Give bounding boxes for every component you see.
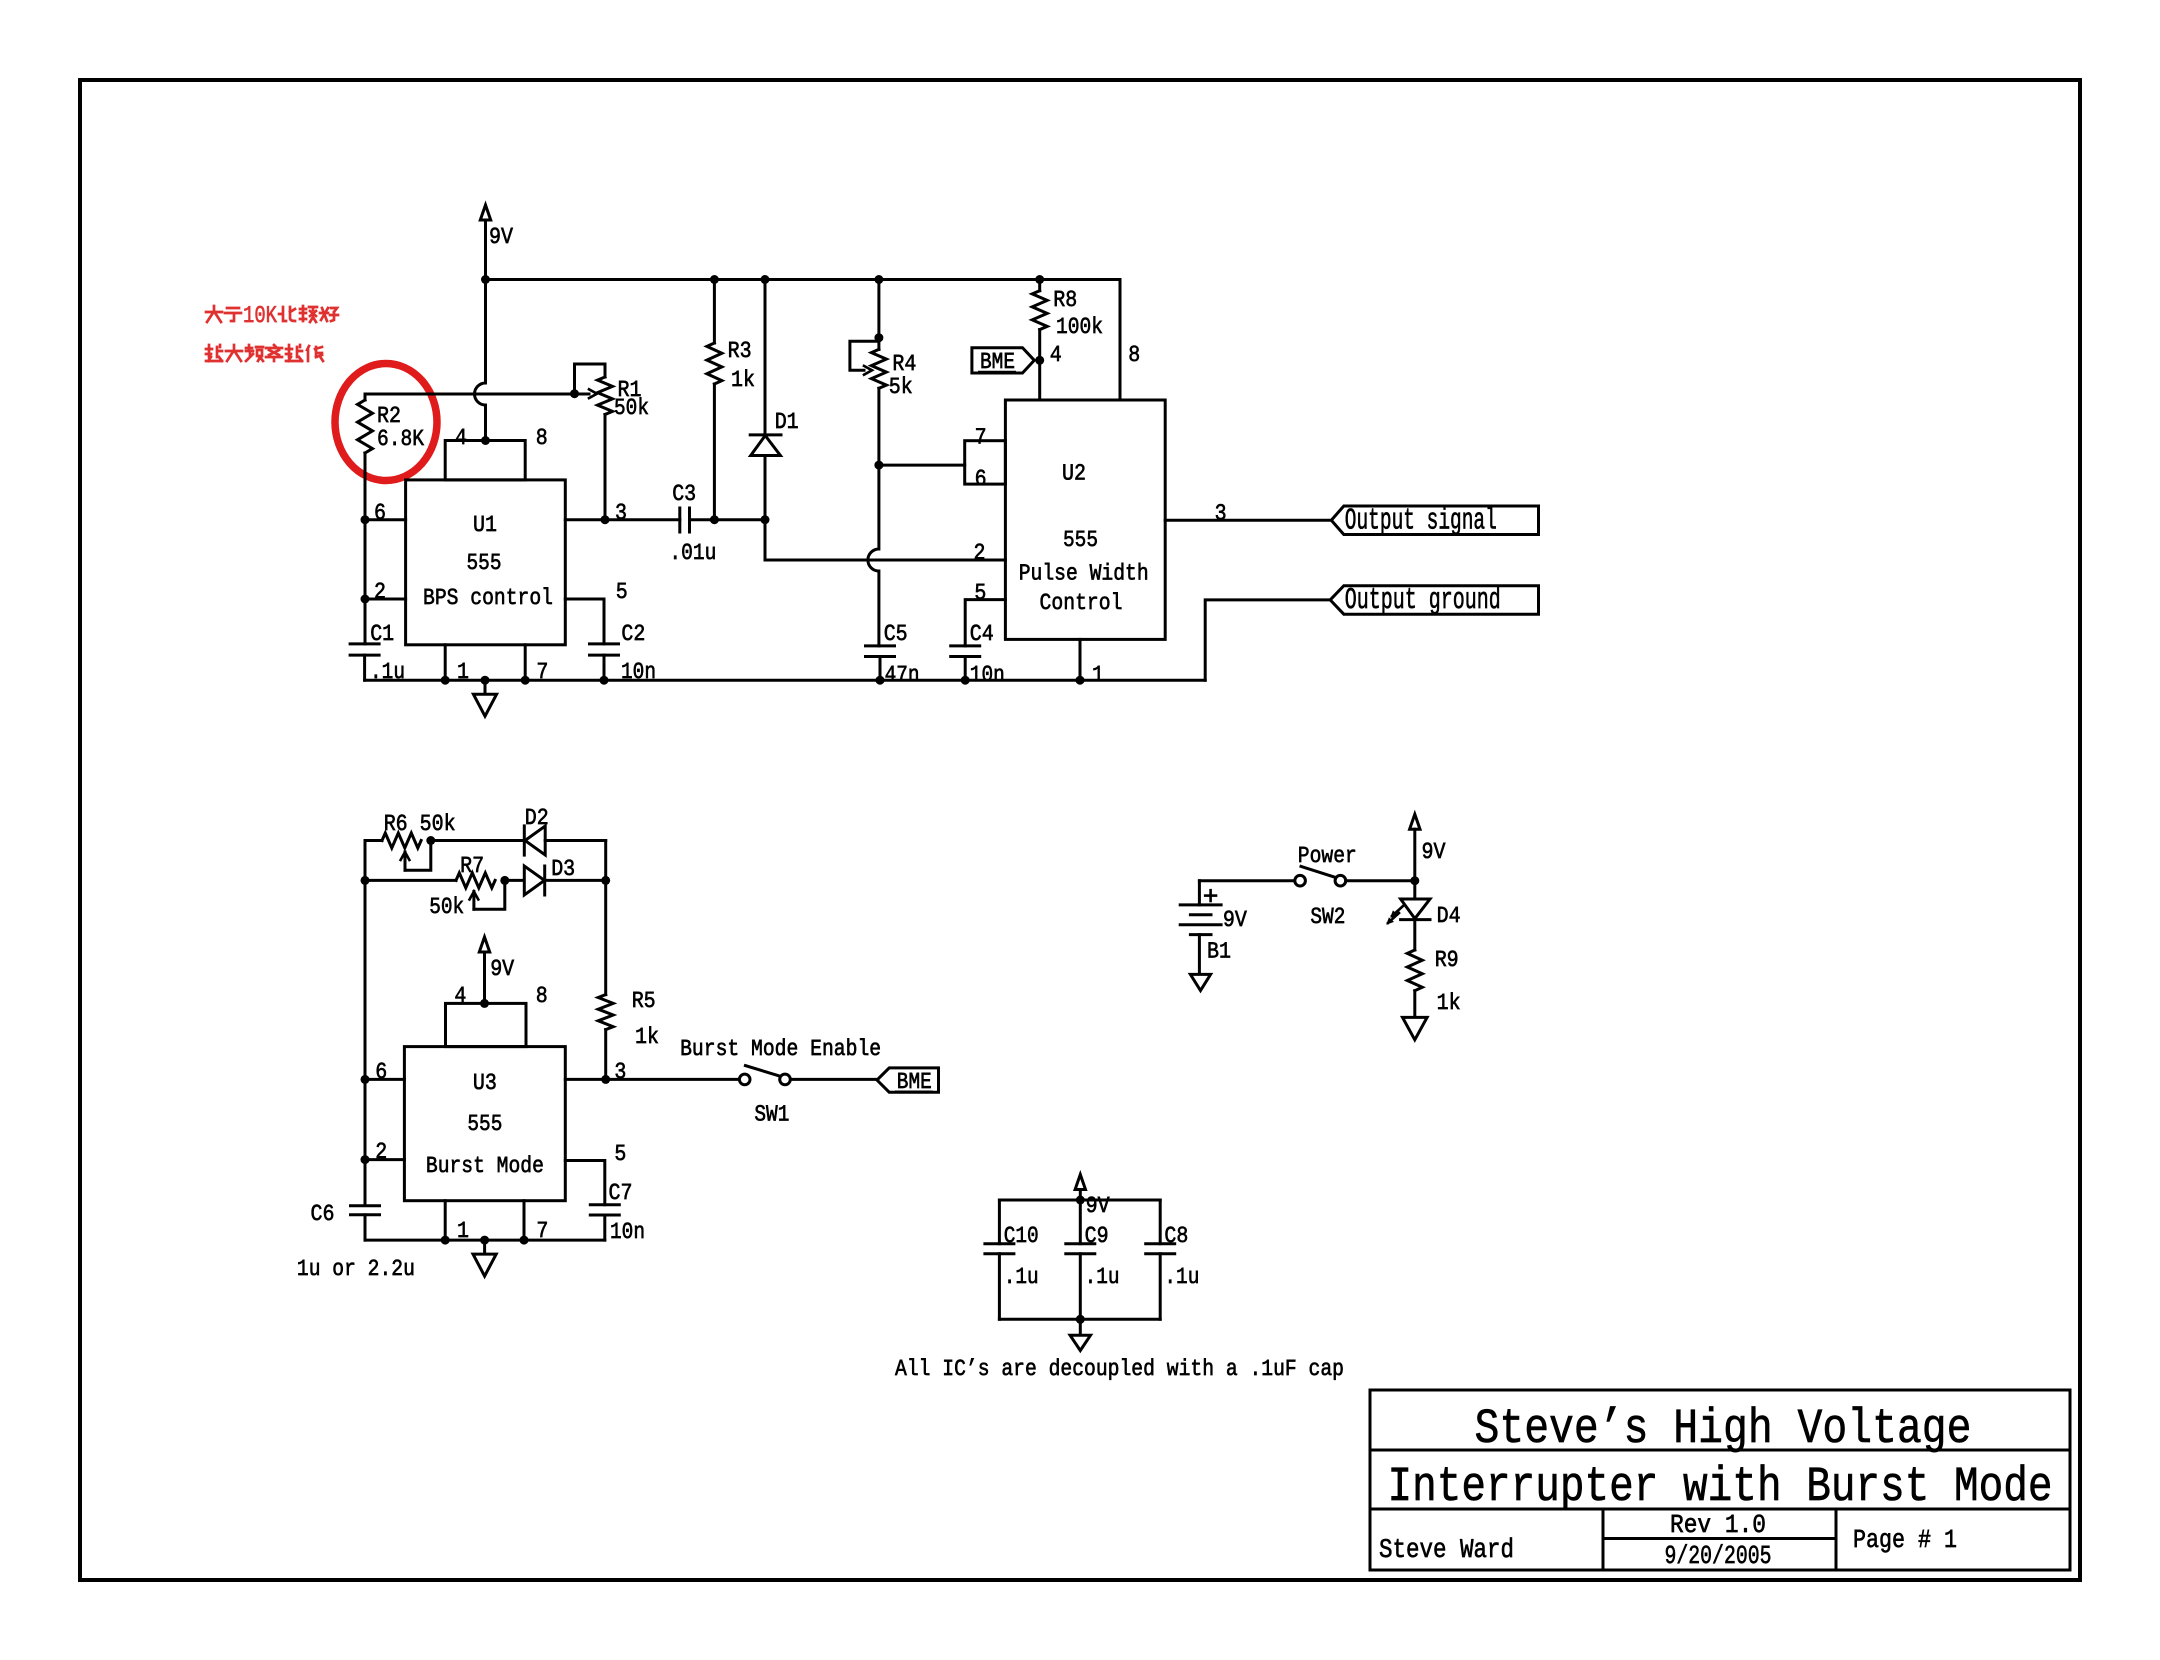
resistor R3 1k bbox=[707, 280, 722, 520]
svg-text:9/20/2005: 9/20/2005 bbox=[1665, 1541, 1772, 1571]
capacitor C6 1u bbox=[351, 1206, 380, 1240]
junction dot R6 right/wiper bbox=[426, 836, 435, 845]
potentiometer R7 50k bbox=[456, 873, 505, 909]
potentiometer R6 50k bbox=[382, 833, 431, 870]
U3 555 Burst Mode IC box bbox=[404, 1003, 565, 1200]
potentiometer R4 5k bbox=[850, 280, 887, 389]
junction dot rail/R8 bbox=[1035, 275, 1044, 284]
svg-text:Output ground: Output ground bbox=[1345, 584, 1501, 618]
ground symbol (U3) bbox=[473, 1240, 496, 1276]
diode D1 bbox=[750, 280, 781, 520]
svg-text:1k: 1k bbox=[635, 1024, 659, 1050]
junction dot at U3 4/8 notch bbox=[480, 999, 489, 1008]
junction dot R8/BME (U2 pin 4) bbox=[1035, 356, 1044, 365]
junction dot U3 pin 6 bbox=[361, 1075, 370, 1084]
svg-text:Steve Ward: Steve Ward bbox=[1379, 1536, 1514, 1566]
power arrow 9V (battery circuit) bbox=[1410, 814, 1420, 881]
svg-text:Power: Power bbox=[1298, 843, 1357, 869]
svg-text:Page # 1: Page # 1 bbox=[1853, 1525, 1957, 1555]
ground symbol (battery) bbox=[1190, 974, 1210, 990]
junction dots on upper ground rail bbox=[441, 676, 450, 685]
wire: R6/D2 top loop bbox=[365, 839, 382, 842]
LED D4 emission arrows bbox=[1386, 906, 1403, 925]
svg-text:3: 3 bbox=[615, 500, 627, 526]
svg-text:.1u: .1u bbox=[1004, 1264, 1039, 1290]
svg-text:C4: C4 bbox=[970, 621, 994, 647]
diode D2 bbox=[524, 826, 605, 855]
wire: U3 pin 1 bbox=[444, 1201, 447, 1240]
svg-text:C7: C7 bbox=[609, 1180, 633, 1206]
svg-text:C6: C6 bbox=[311, 1201, 335, 1227]
red annotation text line 2: 越大频率越低 bbox=[206, 345, 323, 361]
svg-text:SW1: SW1 bbox=[754, 1102, 789, 1128]
svg-text:Rev 1.0: Rev 1.0 bbox=[1670, 1510, 1766, 1540]
svg-text:BPS control: BPS control bbox=[423, 585, 553, 611]
net flag Output signal bbox=[1331, 506, 1538, 535]
svg-text:9V: 9V bbox=[1223, 907, 1247, 933]
capacitor C9 .1u bbox=[1066, 1200, 1095, 1319]
wire: U3 pin 7 bbox=[523, 1201, 526, 1240]
svg-text:R8: R8 bbox=[1053, 287, 1077, 313]
wire: U1 pin 6 bbox=[365, 518, 406, 521]
junction dot pin 6 bbox=[361, 515, 370, 524]
svg-text:C5: C5 bbox=[884, 621, 908, 647]
svg-text:2: 2 bbox=[374, 579, 386, 605]
junction dot at U1 4/8 notch bbox=[481, 436, 490, 445]
wire: decoupling top bus bbox=[999, 1199, 1160, 1202]
svg-text:Burst Mode: Burst Mode bbox=[426, 1153, 544, 1179]
svg-text:9V: 9V bbox=[1422, 839, 1446, 865]
power arrow 9V (top, feeds U1 rail) bbox=[480, 205, 490, 280]
svg-text:9V: 9V bbox=[1086, 1193, 1110, 1219]
wire: D2 to right vertical corner bbox=[604, 841, 607, 881]
wire: left vertical of burst oscillator bbox=[364, 841, 367, 1205]
svg-text:5: 5 bbox=[614, 1141, 626, 1167]
title block bbox=[1370, 1390, 2070, 1570]
net flag Output ground bbox=[1330, 586, 1538, 615]
junction dot R4 top/wiper bbox=[874, 333, 883, 342]
svg-text:U3: U3 bbox=[473, 1070, 497, 1096]
svg-text:Interrupter with Burst Mode: Interrupter with Burst Mode bbox=[1388, 1459, 2053, 1515]
junction dot R7 right/wiper bbox=[500, 876, 509, 885]
wire: U1 pin 7 bbox=[524, 645, 527, 680]
ground symbol (R9) bbox=[1403, 1017, 1428, 1039]
svg-text:555: 555 bbox=[1063, 527, 1098, 553]
wire: D1 node down and right to U2 pin 2 bbox=[765, 520, 1005, 560]
svg-text:C9: C9 bbox=[1085, 1223, 1109, 1249]
svg-text:B1: B1 bbox=[1207, 939, 1231, 965]
wire: upper ground rail bbox=[365, 679, 1206, 682]
wire: U3 pin 5 to C7 bbox=[565, 1161, 605, 1205]
svg-text:1k: 1k bbox=[731, 367, 755, 393]
svg-text:6: 6 bbox=[975, 466, 987, 492]
red circle highlighting R2 bbox=[335, 364, 437, 481]
svg-text:C2: C2 bbox=[621, 621, 645, 647]
svg-text:R7: R7 bbox=[460, 853, 484, 879]
wire: R6 to D2 bbox=[431, 839, 525, 842]
svg-text:Steve’s High Voltage: Steve’s High Voltage bbox=[1475, 1401, 1972, 1457]
svg-text:4: 4 bbox=[454, 983, 466, 1009]
svg-text:R9: R9 bbox=[1435, 947, 1459, 973]
svg-text:2: 2 bbox=[974, 540, 986, 566]
svg-text:1: 1 bbox=[1092, 662, 1104, 688]
resistor R5 1k bbox=[598, 880, 613, 1079]
junction dot rail/D1 bbox=[761, 275, 770, 284]
svg-text:R5: R5 bbox=[632, 988, 656, 1014]
battery B1 9V bbox=[1180, 881, 1221, 975]
svg-text:5: 5 bbox=[974, 580, 986, 606]
svg-text:D3: D3 bbox=[551, 856, 575, 882]
wire: R4 bottom through hop down to C5 bbox=[868, 388, 879, 646]
svg-text:Burst Mode Enable: Burst Mode Enable bbox=[680, 1036, 881, 1062]
svg-text:D2: D2 bbox=[525, 805, 549, 831]
wire: U3 pin 2 bbox=[365, 1158, 404, 1161]
potentiometer R1 50k bbox=[575, 364, 613, 520]
junction dot left vertical/R7 bbox=[361, 876, 370, 885]
junction dot R1/pin3 bbox=[601, 515, 610, 524]
capacitor C2 10n bbox=[565, 599, 618, 680]
svg-text:6: 6 bbox=[375, 1059, 387, 1085]
resistor R9 1k bbox=[1407, 950, 1422, 1017]
wire: U2 pin 5 to C4 bbox=[965, 600, 1005, 646]
svg-text:3: 3 bbox=[614, 1059, 626, 1085]
svg-text:C1: C1 bbox=[370, 621, 394, 647]
wire: R7 row from left vertical bbox=[365, 879, 456, 882]
net flag BME (right) bbox=[877, 1068, 939, 1092]
wire: rail corner down to U2 pin 8 bbox=[1119, 280, 1122, 401]
svg-text:U2: U2 bbox=[1062, 461, 1086, 487]
wire: U3 pin 6 bbox=[365, 1078, 404, 1081]
svg-text:5k: 5k bbox=[889, 374, 913, 400]
junction dot pin 2 bbox=[361, 595, 370, 604]
wire: decoupling bottom bus bbox=[999, 1318, 1160, 1321]
svg-text:C3: C3 bbox=[672, 481, 696, 507]
wire: lower ground rail bbox=[365, 1239, 605, 1242]
wire: U2 pin 1 bbox=[1079, 639, 1082, 680]
svg-text:3: 3 bbox=[1215, 501, 1227, 527]
svg-text:1k: 1k bbox=[1437, 990, 1461, 1016]
U2 555 Pulse Width Control IC box bbox=[1005, 400, 1165, 639]
svg-text:1u or 2.2u: 1u or 2.2u bbox=[297, 1256, 415, 1282]
diode D3 bbox=[524, 866, 605, 895]
svg-text:R6 50k: R6 50k bbox=[384, 811, 456, 837]
svg-text:Output signal: Output signal bbox=[1345, 505, 1497, 539]
switch SW2 Power bbox=[1295, 866, 1346, 886]
junction dot decoupling top bbox=[1076, 1196, 1085, 1205]
capacitor C7 10n bbox=[590, 1205, 619, 1240]
svg-text:6: 6 bbox=[374, 500, 386, 526]
junction dot R3/pin3 wire bbox=[710, 515, 719, 524]
svg-text:All IC’s are decoupled with a: All IC’s are decoupled with a .1uF cap bbox=[895, 1356, 1344, 1382]
junction dot U3 pin3/R5 bbox=[601, 1075, 610, 1084]
svg-text:C10: C10 bbox=[1004, 1223, 1039, 1249]
junction dot D1/pin3 wire bbox=[761, 515, 770, 524]
capacitor C5 47n bbox=[866, 646, 895, 680]
svg-text:10K: 10K bbox=[243, 303, 277, 330]
wire: U2 pin 3 to Output signal bbox=[1165, 519, 1331, 522]
junction dot rail/9V bbox=[481, 275, 490, 284]
U2 pins 6/7 notch box bbox=[965, 441, 1006, 484]
junction dots lower rail bbox=[441, 1236, 450, 1245]
ground symbol (upper circuit) bbox=[473, 680, 496, 716]
battery + sign bbox=[1205, 890, 1216, 901]
power arrow 9V (U3) bbox=[479, 937, 489, 1003]
wire: U1 pin 1 bbox=[444, 645, 447, 680]
junction dot U3 pin 2 bbox=[361, 1155, 370, 1164]
resistor R8 100k bbox=[1032, 280, 1047, 401]
svg-text:10n: 10n bbox=[610, 1219, 645, 1245]
svg-text:50k: 50k bbox=[429, 894, 464, 920]
svg-text:7: 7 bbox=[975, 425, 987, 451]
LED D4 bbox=[1401, 881, 1430, 950]
svg-text:.01u: .01u bbox=[669, 540, 716, 566]
svg-text:.1u: .1u bbox=[1085, 1264, 1120, 1290]
junction dot R1 wiper bbox=[570, 389, 579, 398]
junction dot 9V/SW2/D4 bbox=[1410, 876, 1419, 885]
svg-text:100k: 100k bbox=[1056, 314, 1103, 340]
svg-text:R3: R3 bbox=[728, 338, 752, 364]
wire: U1 pin 3 to C3 bbox=[565, 518, 680, 521]
wire: SW2 to 9V node bbox=[1346, 879, 1415, 882]
power arrow 9V (decoupling) bbox=[1075, 1175, 1085, 1201]
svg-text:D4: D4 bbox=[1437, 903, 1461, 929]
wire: U3 pin 3 to SW1 bbox=[565, 1078, 738, 1081]
wire: R2/C1 vertical bbox=[364, 520, 367, 644]
net flag BME (at U2 pin 4) bbox=[972, 348, 1034, 373]
wire: R2 top to R1 wiper (node A) bbox=[365, 393, 575, 396]
svg-text:8: 8 bbox=[536, 425, 548, 451]
wire: SW1 to BME flag bbox=[791, 1078, 878, 1081]
svg-text:6.8K: 6.8K bbox=[377, 426, 424, 452]
svg-text:555: 555 bbox=[467, 550, 502, 576]
wire: R7 to D3 bbox=[505, 879, 525, 882]
capacitor C4 10n bbox=[951, 646, 980, 680]
resistor R2 6.8K bbox=[358, 394, 373, 520]
wire: battery top to SW2 bbox=[1199, 879, 1295, 882]
svg-text:.1u: .1u bbox=[1164, 1264, 1199, 1290]
capacitor C10 .1u bbox=[985, 1200, 1014, 1319]
U1 555 BPS control IC box bbox=[406, 441, 566, 645]
capacitor C1 .1u bbox=[350, 644, 379, 680]
svg-text:555: 555 bbox=[467, 1111, 502, 1137]
switch SW1 bbox=[739, 1066, 790, 1085]
wire: top 9V rail bbox=[486, 278, 1121, 281]
svg-text:Pulse Width: Pulse Width bbox=[1019, 560, 1149, 586]
svg-text:4: 4 bbox=[1050, 342, 1062, 368]
junction dot rail/R4 bbox=[874, 275, 883, 284]
junction dot decoupling bottom bbox=[1076, 1315, 1085, 1324]
junction dot rail/R3 bbox=[710, 275, 719, 284]
svg-text:8: 8 bbox=[1128, 342, 1140, 368]
svg-text:9V: 9V bbox=[489, 224, 513, 250]
wire: 9V drop to U1 pins 4/8 with hop over R2-R1 wire bbox=[475, 280, 486, 441]
ground symbol (decoupling) bbox=[1070, 1319, 1090, 1350]
junction dot D2/D3 right vertical bbox=[601, 876, 610, 885]
red annotation text line 1: 大于10K比较好 bbox=[206, 306, 241, 322]
svg-text:Control: Control bbox=[1040, 590, 1123, 616]
svg-text:47n: 47n bbox=[885, 662, 920, 688]
svg-text:9V: 9V bbox=[490, 956, 514, 982]
svg-text:C8: C8 bbox=[1164, 1223, 1188, 1249]
wire: C3 to R3/D1 node bbox=[714, 518, 765, 521]
wire: R4 to U2 pins 6/7 notch bbox=[879, 464, 965, 467]
svg-text:D1: D1 bbox=[775, 409, 799, 435]
junction dot R4/pin6-7 wire bbox=[874, 461, 883, 470]
svg-text:SW2: SW2 bbox=[1310, 904, 1345, 930]
svg-text:U1: U1 bbox=[473, 512, 497, 538]
wire: ground rail up to Output ground flag bbox=[1205, 600, 1330, 680]
capacitor C8 .1u bbox=[1146, 1200, 1175, 1319]
svg-text:5: 5 bbox=[616, 579, 628, 605]
svg-text:10n: 10n bbox=[970, 662, 1005, 688]
wire: U1 pin 2 bbox=[365, 598, 406, 601]
svg-text:4: 4 bbox=[455, 425, 467, 451]
svg-text:8: 8 bbox=[536, 983, 548, 1009]
capacitor C3 .01u (coupling) bbox=[680, 508, 715, 532]
svg-text:50k: 50k bbox=[614, 395, 649, 421]
